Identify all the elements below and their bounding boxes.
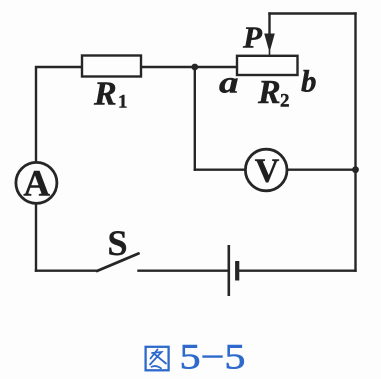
svg-text:1: 1 — [118, 92, 128, 113]
wire top-right: wiper to right rail — [270, 12, 356, 14]
svg-text:S: S — [108, 223, 128, 263]
battery long (positive) plate — [228, 245, 231, 296]
svg-text:R: R — [257, 74, 281, 111]
wire: potentiometer wiper riser — [268, 14, 270, 41]
wire: left rail, ammeter bottom to bottom rail — [35, 203, 37, 270]
ammeter A — [16, 162, 57, 203]
svg-text:2: 2 — [280, 91, 290, 112]
wire: voltmeter branch horizontal, left of V — [195, 168, 246, 170]
svg-text:A: A — [23, 164, 50, 205]
svg-text:a: a — [219, 65, 239, 100]
svg-text:b: b — [301, 64, 317, 99]
junction: right rail / voltmeter node — [352, 166, 359, 173]
voltmeter V — [245, 149, 287, 191]
svg-text:R: R — [93, 75, 117, 112]
wire: switch fixed contact to battery positive plate — [139, 270, 229, 272]
battery short (negative) plate — [235, 261, 239, 281]
wire: junction to voltmeter branch (vertical drop) — [194, 67, 196, 170]
junction: R1/R2/voltmeter node — [191, 64, 198, 71]
caption glyph 图 (drawn) — [146, 347, 169, 371]
resistor R1 — [82, 56, 141, 77]
svg-text:V: V — [255, 153, 280, 190]
wire: right rail — [354, 14, 356, 271]
wire: battery negative plate to right rail — [239, 270, 356, 272]
wire bottom-left: left rail corner to switch pivot — [36, 270, 97, 272]
potentiometer R2 body — [237, 56, 298, 75]
wire top-left: left rail to R1 — [36, 67, 82, 163]
wire: R1 right terminal to node a (through junction) — [141, 66, 237, 68]
potentiometer wiper arrow — [264, 34, 275, 53]
svg-text:5−5: 5−5 — [180, 337, 246, 377]
switch S blade — [97, 254, 139, 272]
wire: voltmeter right terminal to right rail — [287, 168, 356, 170]
svg-text:P: P — [242, 20, 263, 55]
